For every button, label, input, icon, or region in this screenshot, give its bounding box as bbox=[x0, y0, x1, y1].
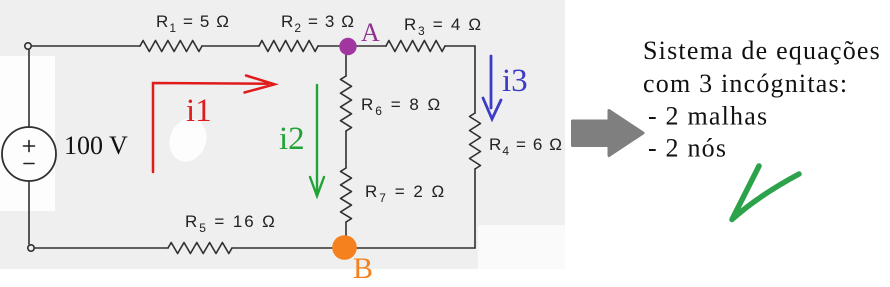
resistor R1 bbox=[140, 41, 202, 52]
wire node A down to R6 bbox=[345, 55, 347, 76]
resistor R4 bbox=[470, 113, 481, 169]
wire source to top left corner bbox=[28, 50, 30, 127]
current arrow i2 (green) bbox=[310, 85, 324, 196]
white patch under i1 bbox=[164, 113, 213, 167]
svg-text:100 V: 100 V bbox=[64, 131, 128, 160]
voltage source V1 circle bbox=[2, 127, 56, 181]
resistor R5 bbox=[168, 243, 232, 254]
svg-text:Sistema de equações: Sistema de equações bbox=[643, 36, 881, 65]
svg-text:i1: i1 bbox=[186, 93, 212, 129]
wire bottom left up to source bbox=[28, 181, 30, 244]
svg-text:com 3 incógnitas:: com 3 incógnitas: bbox=[643, 69, 848, 98]
wire top left to R1 bbox=[31, 45, 140, 47]
svg-text:A: A bbox=[361, 18, 380, 47]
wire R3 to top right corner bbox=[445, 45, 475, 47]
wire node A to R3 bbox=[356, 45, 386, 47]
green check mark bbox=[732, 166, 799, 220]
white patch bottom right bbox=[478, 225, 565, 269]
current arrow i3 (blue) bbox=[483, 56, 501, 119]
resistor R7 bbox=[341, 168, 352, 222]
terminal top-left bbox=[25, 43, 31, 49]
wire R4 to bottom right corner bbox=[474, 169, 476, 248]
current arrow i1 (red) bbox=[153, 76, 275, 173]
wire R7 to node B bbox=[345, 222, 347, 240]
wire R1 to R2 bbox=[202, 45, 259, 47]
wire R5 to bottom left terminal bbox=[35, 247, 168, 249]
wire bottom right to node B bbox=[357, 247, 475, 249]
terminal bottom-left bbox=[28, 245, 34, 251]
wire right branch down to R4 bbox=[474, 46, 476, 113]
block arrow bbox=[573, 111, 644, 156]
resistor R6 bbox=[341, 76, 352, 131]
svg-text:i2: i2 bbox=[279, 121, 305, 157]
svg-text:- 2 nós: - 2 nós bbox=[648, 134, 727, 163]
svg-text:- 2 malhas: - 2 malhas bbox=[648, 102, 768, 131]
resistor R3 bbox=[386, 41, 445, 52]
source polarity - bbox=[24, 163, 34, 165]
wire R2 to node A bbox=[318, 45, 341, 47]
scan background bbox=[0, 0, 565, 269]
node A dot bbox=[339, 38, 356, 55]
resistor R2 bbox=[259, 41, 318, 52]
source polarity + bbox=[24, 141, 35, 164]
wire node B to R5 bbox=[232, 247, 334, 249]
annotation text bbox=[643, 36, 881, 163]
white patch left edge bbox=[0, 56, 55, 211]
wire R6 to R7 bbox=[345, 131, 347, 168]
svg-text:i3: i3 bbox=[502, 63, 528, 99]
svg-text:B: B bbox=[353, 252, 373, 285]
node B dot bbox=[332, 235, 357, 260]
